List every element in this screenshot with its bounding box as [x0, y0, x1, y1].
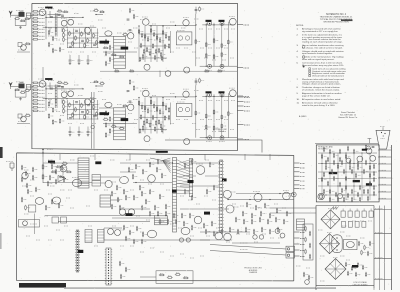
resistor column left of T1	[105, 40, 107, 43]
matching coil	[26, 13, 30, 18]
bottom tubes audio	[147, 230, 156, 238]
label bold tsl	[78, 250, 84, 253]
tube V4	[105, 31, 112, 36]
sound if box	[176, 32, 192, 45]
power box border	[316, 145, 379, 202]
power small tubes	[337, 193, 342, 198]
right border ticks lower	[294, 231, 300, 233]
B plus right page border	[391, 145, 393, 290]
speaker labels	[240, 242, 248, 244]
wire plate bus right	[149, 24, 196, 26]
misc text specks strip	[48, 8, 54, 10]
svg-text:taken with no signal input pre: taken with no signal input present.	[302, 58, 335, 61]
wire between strips 1	[42, 67, 44, 80]
label bold VHF TUNER	[45, 7, 52, 9]
vert output sub ladder	[297, 219, 305, 230]
transformer T5 box	[100, 195, 111, 207]
label bold on ladder	[172, 190, 177, 193]
long vertical 196	[195, 14, 197, 66]
TP circle A1	[143, 19, 150, 26]
capacitor C1	[50, 16, 53, 18]
parts on interstrip bus	[115, 70, 118, 72]
svg-text:NOTES:: NOTES:	[296, 25, 304, 27]
tube V21	[357, 156, 363, 162]
wire route to lower right	[165, 140, 262, 153]
tube pair V18	[119, 209, 125, 215]
TP circle A4	[144, 64, 150, 70]
label bold p4	[362, 149, 367, 151]
CRT small parts	[365, 146, 367, 149]
svg-text:CIRCUIT BOARD: CIRCUIT BOARD	[353, 283, 369, 286]
tube V19	[366, 148, 372, 154]
parts top chain	[58, 13, 61, 15]
svg-text:vtg maintained at 117 v ac sup: vtg maintained at 117 v ac supply line.	[302, 30, 339, 33]
left edge connector	[10, 163, 14, 171]
svg-text:noted in the parts listing. K: noted in the parts listing. K = 1000.	[302, 104, 335, 107]
B plus terminal ticks	[378, 149, 392, 151]
speaker conn 1	[286, 246, 295, 251]
svg-text:this chassis. One side of ac l: this chassis. One side of ac line is hot…	[302, 46, 343, 49]
pot circles	[179, 238, 183, 242]
TP circle A3	[229, 18, 236, 25]
transformer T4 ladder	[78, 158, 89, 188]
svg-text:SCHEMATIC NO. 4: SCHEMATIC NO. 4	[326, 13, 347, 16]
tube volume b	[52, 197, 60, 204]
svg-text:A 14849: A 14849	[299, 115, 307, 118]
small parts col mid	[63, 29, 65, 32]
label bold v	[188, 180, 194, 183]
wire if bus2	[43, 26, 97, 28]
pot trimmer top 2	[220, 22, 224, 26]
tone cluster box	[156, 271, 193, 284]
tube V10 sync	[72, 179, 81, 187]
wire B feed down	[42, 157, 44, 183]
volume tube	[35, 198, 43, 205]
coil L1	[48, 14, 62, 16]
tuner link circles	[91, 99, 95, 103]
wire tuner bus vertical	[45, 11, 47, 39]
bottom mid tubes	[215, 232, 223, 240]
notes item circle markers	[302, 46, 305, 49]
bus vertical drops	[49, 27, 51, 32]
scan bottom gray line	[64, 287, 336, 289]
wire main to yoke	[270, 207, 316, 209]
junction dots mid	[172, 162, 173, 163]
speaker conn 2	[286, 253, 295, 258]
yoke right ticks	[374, 209, 392, 211]
tube V15	[194, 216, 202, 224]
deflection yoke winding 1	[321, 210, 340, 229]
main deck border	[17, 153, 294, 281]
resistor R41	[42, 165, 44, 169]
left mid parts col	[48, 31, 50, 34]
tube V13	[223, 190, 231, 198]
yoke bottom border	[316, 285, 374, 287]
mesh extra caps	[69, 45, 72, 47]
parts row below ant	[16, 18, 19, 20]
wire bottom bus strip	[103, 51, 137, 53]
cluster links	[139, 33, 167, 35]
wire grid bus	[46, 16, 83, 18]
notes sub table	[309, 68, 311, 70]
scan edge mark left	[0, 147, 3, 158]
tube left small	[22, 172, 28, 178]
crt socket box	[344, 239, 357, 249]
wires sync area	[43, 162, 78, 164]
svg-text:Vertical hold set for locked p: Vertical hold set for locked picture	[312, 74, 345, 77]
label bold w	[204, 212, 210, 215]
picture tube CRT base	[376, 130, 390, 149]
tuner link vertical pair	[91, 92, 93, 149]
power value specks	[324, 155, 327, 157]
svg-text:All capacitor values in mmf un: All capacitor values in mmf unless noted…	[302, 98, 341, 101]
tube V5	[128, 33, 134, 39]
wire h top right	[202, 24, 233, 26]
verticals resistors	[195, 40, 197, 43]
pot trimmer bottom 1	[208, 64, 212, 68]
text antenna label	[16, 9, 24, 11]
yoke parts right	[358, 242, 359, 245]
antenna symbol	[9, 11, 12, 16]
terminal tick B	[237, 67, 243, 69]
wiring harness diagonals	[177, 160, 190, 167]
svg-text:HV SUPPLY: HV SUPPLY	[318, 149, 329, 151]
label bold T4	[95, 161, 101, 164]
bottom small circles	[253, 235, 257, 239]
svg-text:SHOWN IN PRODUCTION: SHOWN IN PRODUCTION	[323, 22, 349, 24]
tube V22 rectifier	[318, 193, 324, 199]
yoke text specks	[318, 229, 323, 231]
lower left small cluster	[21, 45, 27, 51]
ground ant	[20, 26, 22, 27]
second ladder column	[189, 159, 192, 197]
pot trimmer top 1	[208, 22, 212, 26]
svg-text:of schematic. Check the chassi: of schematic. Check the chassis stamp.	[302, 89, 340, 92]
wire top mid parts	[195, 7, 197, 14]
wires bottom mid	[200, 231, 250, 233]
yoke plug oval	[332, 235, 342, 253]
wire plate line short	[96, 14, 103, 16]
mesh resistors	[69, 32, 71, 35]
interlock box	[19, 220, 40, 228]
fan wires to ladder	[163, 158, 171, 161]
cluster extra parts	[141, 34, 142, 37]
terminal strip audio tall	[106, 248, 111, 285]
boxes pair audio	[85, 230, 92, 243]
label bold conv	[99, 41, 109, 44]
tube V1 mixer	[39, 9, 46, 16]
main deck text specks	[48, 159, 53, 161]
capacitor row to ground	[69, 55, 71, 60]
wire bus y36	[99, 36, 114, 38]
mid cluster wires	[120, 162, 172, 164]
deflection yoke winding 2	[320, 234, 340, 254]
label bold p2	[353, 180, 360, 182]
volume pot box	[28, 205, 35, 212]
label bold pot2	[219, 20, 225, 22]
top right small parts	[129, 9, 131, 12]
svg-text:Voltages shown are peak to pea: Voltages shown are peak to peak values.	[302, 83, 341, 86]
wire ant bottom	[15, 25, 26, 27]
diode sync sep	[58, 176, 66, 182]
left small parts	[21, 198, 23, 201]
wire y215	[45, 215, 155, 217]
wire out right t5	[111, 199, 121, 201]
interstage mesh	[67, 29, 69, 49]
parts near V5	[124, 34, 127, 36]
pin boxes row 2	[342, 221, 346, 227]
audio left parts	[123, 226, 125, 229]
left column extra parts	[21, 166, 23, 169]
svg-text:11.: 11.	[297, 102, 300, 104]
second IF strip reuse	[32, 78, 249, 145]
long vertical 214	[213, 23, 215, 66]
vertical with parts 170	[169, 31, 171, 53]
wire audio drop	[103, 228, 105, 240]
terminal tick A	[237, 24, 243, 26]
tube V16	[120, 176, 129, 183]
svg-text:page of this service folder se: page of this service folder set.	[302, 94, 331, 97]
tube V2b	[68, 19, 74, 25]
parts right of audio strip	[119, 262, 121, 265]
label bold p3	[366, 183, 372, 185]
left yoke parts	[303, 273, 304, 276]
cluster 140-167	[138, 26, 140, 62]
left of yoke column box	[303, 224, 313, 260]
TP circle between strips	[165, 71, 171, 77]
long vertical 228	[227, 22, 229, 66]
tube V2a	[61, 20, 67, 26]
scan bottom dark band	[19, 283, 66, 288]
mid cluster resistors	[135, 165, 137, 168]
label near junction	[47, 149, 53, 151]
pin boxes row 1	[341, 211, 345, 217]
tube V20	[370, 155, 376, 161]
wire fan origin	[150, 158, 163, 161]
long vertical 222	[221, 23, 223, 66]
scan edge smudge left lower	[0, 233, 2, 249]
terminal strip narrow left	[76, 230, 79, 272]
yoke right verticals	[379, 206, 381, 291]
tall ladder transformer	[173, 158, 177, 233]
small circle below	[305, 280, 310, 285]
wire h bottom	[200, 65, 238, 67]
tube V3	[84, 27, 90, 33]
tube V24	[283, 192, 291, 200]
tube V10b	[60, 165, 67, 172]
fine coil column	[54, 13, 56, 37]
label bold audio	[126, 213, 133, 216]
svg-text:Measured values may vary plus: Measured values may vary plus minus 10%.	[302, 65, 344, 67]
wire drops from top border	[59, 154, 61, 160]
label bold strip	[222, 178, 227, 181]
resistor R42	[42, 175, 44, 179]
tuner sheet border	[32, 3, 238, 150]
speaker line 2	[210, 251, 286, 256]
power vert wires	[321, 153, 323, 200]
svg-text:10.: 10.	[297, 99, 300, 101]
wire between strips 2	[159, 71, 161, 78]
yoke parts right 3	[345, 263, 346, 266]
svg-text:reading on each channel positi: reading on each channel position of rang…	[302, 41, 343, 44]
label bold yoke	[352, 265, 358, 268]
sound takeoff parts	[104, 47, 107, 49]
svg-text:CABLE: CABLE	[218, 130, 225, 133]
stacked mica caps	[92, 175, 101, 181]
tube V14	[226, 205, 234, 213]
long vertical 206	[205, 23, 207, 66]
audio transformer	[155, 216, 168, 225]
audio left tubes	[108, 229, 114, 235]
sync cluster resistors	[51, 162, 55, 164]
pots right	[275, 229, 280, 234]
label bold MAIN DECK	[156, 151, 168, 153]
transformer T1 ladder	[114, 36, 126, 68]
label bold T1	[121, 47, 129, 50]
wire down left	[33, 214, 35, 235]
sawtooth symbol	[331, 207, 339, 210]
right border ticks upper	[294, 162, 300, 164]
pot trimmer bottom 2	[220, 64, 224, 68]
wire antenna to tuner	[10, 15, 12, 17]
audio bus	[104, 239, 210, 241]
junction upper-lower wire	[42, 149, 44, 157]
terminal ticks strip B extra	[237, 96, 243, 98]
deflection yoke winding 3	[325, 259, 346, 280]
tube V12	[196, 166, 205, 175]
balun transformer dark	[19, 12, 25, 17]
two boxes small	[52, 217, 59, 223]
resistor ladder tuner column	[33, 11, 37, 13]
antenna cluster B reuse	[9, 82, 33, 124]
label bold p1	[329, 172, 337, 174]
terminal strip mid	[220, 160, 223, 232]
tube V11	[105, 180, 112, 187]
svg-text:CHASSIS: CHASSIS	[249, 271, 258, 274]
power resistors grid	[321, 155, 322, 158]
wire CRT feed	[315, 142, 378, 144]
label bold pot1	[206, 20, 212, 22]
right border TP circle	[291, 192, 296, 197]
svg-text:input terminals shorted togeth: input terminals shorted together.	[302, 52, 333, 55]
label bold sync	[48, 161, 55, 163]
TP circle A5	[184, 67, 190, 73]
junction dots strip	[45, 17, 46, 18]
speaker line 1	[210, 245, 286, 250]
tube V17	[148, 175, 156, 183]
svg-text:Howard W. Sams Co.: Howard W. Sams Co.	[338, 117, 358, 119]
wire between strips bus	[100, 70, 237, 72]
top small parts pair	[95, 10, 98, 12]
power wires	[318, 152, 377, 154]
power junctions	[329, 152, 330, 153]
wire bus y221	[58, 220, 150, 222]
yoke box borders	[315, 206, 317, 291]
tube V23	[254, 194, 262, 202]
TP circle A2	[183, 20, 189, 26]
